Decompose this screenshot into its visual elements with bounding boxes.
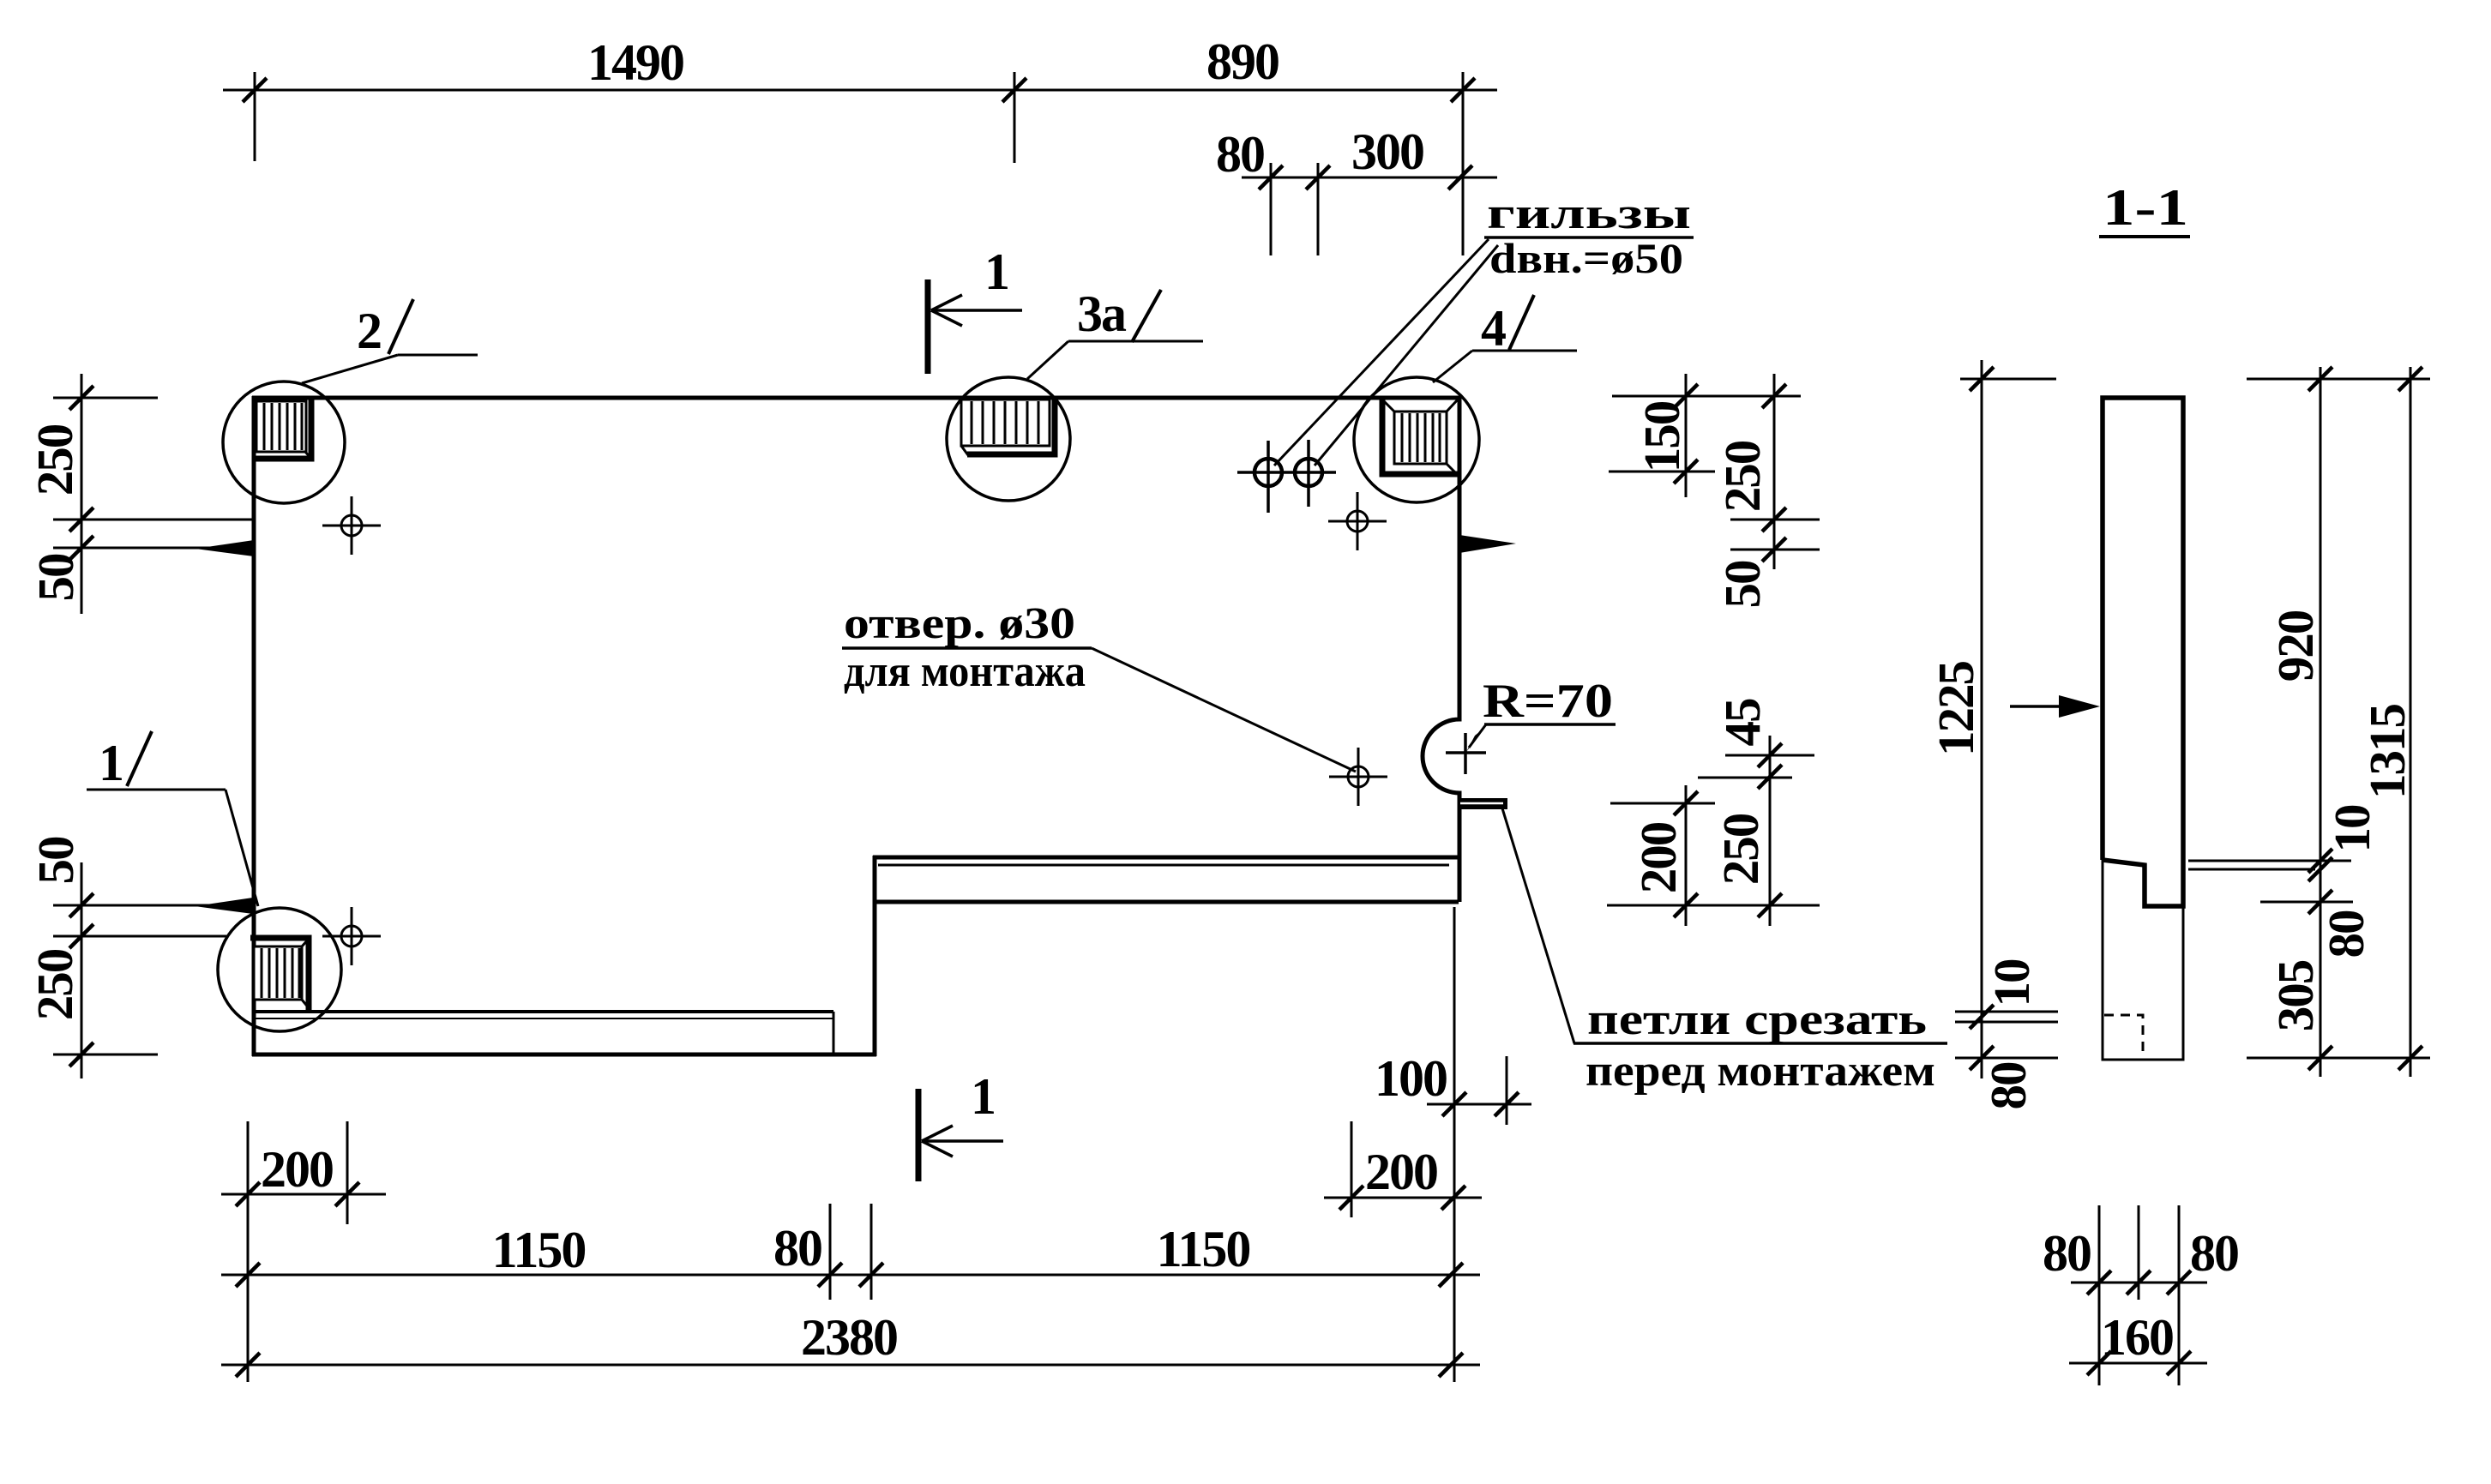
panel right lower rebate edge thick <box>873 856 1459 860</box>
anchor plate 4 chamfer right <box>1447 464 1458 475</box>
section bottom dim line 160 <box>2069 1362 2207 1365</box>
leader detail 4 <box>1433 295 1577 382</box>
anchor plate 1 chamfer bottom <box>302 1000 310 1009</box>
section outline thin lower <box>2103 860 2183 1060</box>
right ext bars upper <box>1612 395 1801 398</box>
svg-text:2380: 2380 <box>801 1309 897 1366</box>
panel right edge with notch R70 <box>1423 396 1459 902</box>
dim line 1490/890 <box>223 89 1497 92</box>
ext rebate end <box>829 1204 832 1300</box>
svg-text:петли срезать: петли срезать <box>1587 995 1927 1044</box>
svg-text:160: 160 <box>2101 1309 2173 1366</box>
gilzy underline <box>1484 236 1694 239</box>
svg-text:80: 80 <box>2190 1225 2238 1282</box>
panel bottom-right edge <box>873 900 1459 904</box>
petli leader <box>1502 808 1574 1043</box>
right dim vertical 200 <box>1685 785 1688 926</box>
left ext bars upper <box>53 397 158 400</box>
svg-text:3a: 3a <box>1077 285 1127 342</box>
dim line 2380 <box>221 1364 1480 1367</box>
svg-text:R=70: R=70 <box>1483 675 1613 728</box>
panel top edge <box>252 396 1461 400</box>
anchor plate 2 hatched square <box>256 401 306 452</box>
mounting hole bottom-left <box>322 907 381 965</box>
section mark 1 bottom bar <box>916 1089 922 1181</box>
svg-text:1: 1 <box>99 735 123 791</box>
svg-text:80: 80 <box>2043 1225 2091 1282</box>
mounting hole top-left <box>322 496 381 555</box>
panel bottom-left edge <box>252 1053 876 1057</box>
detail circle 4 <box>1354 377 1479 502</box>
section bottom ext lines <box>2098 1205 2101 1385</box>
section mark 1 bottom arrow <box>922 1126 1003 1157</box>
anchor plate 3a bevel <box>967 399 1055 454</box>
svg-text:200: 200 <box>261 1141 333 1198</box>
svg-text:1150: 1150 <box>492 1222 586 1278</box>
anchor plate 1 bevel <box>250 938 309 1012</box>
gilzy leader 1 <box>1274 239 1489 466</box>
svg-text:200: 200 <box>1630 822 1687 893</box>
svg-text:150: 150 <box>1634 401 1690 472</box>
otver leader <box>1092 648 1356 772</box>
svg-text:10: 10 <box>1983 959 2040 1007</box>
weld dagger left lower <box>195 898 253 914</box>
svg-text:для монтажа: для монтажа <box>844 647 1086 696</box>
panel left edge <box>252 396 256 1056</box>
svg-text:отвер. ø30: отвер. ø30 <box>844 599 1075 648</box>
weld dagger right upper <box>1459 535 1516 553</box>
section title underline <box>2099 235 2190 238</box>
svg-text:50: 50 <box>27 837 84 885</box>
dim line 200 right <box>1324 1197 1482 1199</box>
svg-text:10: 10 <box>2324 805 2380 853</box>
svg-text:перед монтажем: перед монтажем <box>1585 1047 1935 1096</box>
svg-text:50: 50 <box>27 554 84 602</box>
R70 underline <box>1484 723 1616 726</box>
svg-text:dвн.=ø50: dвн.=ø50 <box>1489 234 1683 282</box>
ext 200 left a <box>247 1121 250 1382</box>
svg-text:4: 4 <box>1481 300 1506 357</box>
svg-text:1: 1 <box>971 1068 995 1125</box>
lifting loop bar right <box>1458 798 1507 809</box>
dim line 200 left <box>221 1193 386 1196</box>
ext hole right <box>1351 1121 1353 1217</box>
anchor plate 2 chamfer <box>305 452 312 460</box>
right dim vertical 250/50 <box>1773 374 1776 569</box>
gilzy leader 2 <box>1315 245 1498 466</box>
svg-text:920: 920 <box>2267 610 2324 682</box>
sleeve hole right axis <box>1307 440 1310 507</box>
section right dim vertical 920/305 <box>2320 367 2322 1077</box>
leader detail 2 <box>302 299 478 383</box>
svg-text:80: 80 <box>773 1220 821 1277</box>
petli underline <box>1573 1042 1947 1045</box>
mounting hole top-right <box>1328 492 1387 550</box>
left dim vertical upper <box>81 374 83 614</box>
svg-text:1150: 1150 <box>1157 1221 1250 1277</box>
svg-text:250: 250 <box>1714 441 1771 512</box>
otver underline <box>842 646 1092 650</box>
sleeve hole left axis <box>1267 441 1270 513</box>
dim line 80/300 <box>1242 177 1497 179</box>
svg-text:2: 2 <box>357 303 381 359</box>
ext line mid <box>1014 72 1016 163</box>
section ext bars left <box>1960 378 2056 381</box>
panel right lower rebate edge thin <box>878 864 1449 867</box>
svg-text:1225: 1225 <box>1928 662 1984 757</box>
svg-text:1315: 1315 <box>2359 705 2416 800</box>
section outline thick <box>2103 398 2183 906</box>
detail circle 2 <box>223 382 345 503</box>
R70 leader arrow <box>1466 724 1486 752</box>
left rebate end vertical <box>833 1012 835 1054</box>
mounting hole mid-right (otver d30) <box>1329 748 1387 806</box>
section left dim vertical 1225 <box>1981 360 1983 1078</box>
leader detail 1 <box>87 731 258 906</box>
detail circle 3a <box>947 377 1070 501</box>
svg-text:1-1: 1-1 <box>2103 179 2188 236</box>
anchor plate 4 bevel <box>1382 399 1459 474</box>
ext line sleeve2 <box>1317 163 1320 255</box>
anchor plate 1 chamfer top <box>302 938 310 946</box>
left rebate line thin <box>254 1018 833 1019</box>
svg-text:1490: 1490 <box>587 34 683 91</box>
sleeves common horizontal axis <box>1237 471 1336 474</box>
anchor plate 1 hatched square <box>254 946 302 1000</box>
ext step <box>870 1204 873 1300</box>
section mark 1 top arrow <box>931 295 1022 326</box>
svg-text:1: 1 <box>984 243 1008 300</box>
section view arrow <box>2010 695 2100 718</box>
sleeve hole left <box>1255 459 1282 486</box>
section ext bars right <box>2247 378 2430 381</box>
section right dim vertical 1315 <box>2410 367 2412 1077</box>
R70 notch center cross <box>1446 733 1486 774</box>
panel step edge <box>873 856 877 1056</box>
left rebate line thick <box>254 1010 833 1013</box>
detail circle 1 <box>218 908 341 1031</box>
anchor plate 3a hatched square <box>961 400 1050 446</box>
weld dagger left upper <box>196 540 254 556</box>
left dim vertical lower <box>81 862 83 1078</box>
ext line right <box>1462 72 1465 255</box>
ext loop end <box>1506 1056 1508 1125</box>
left ext bars lower <box>53 904 226 907</box>
svg-text:300: 300 <box>1351 123 1423 180</box>
svg-text:100: 100 <box>1375 1050 1447 1107</box>
svg-text:45: 45 <box>1714 699 1771 747</box>
ext right edge bottom <box>1453 907 1456 1382</box>
svg-text:80: 80 <box>2318 910 2374 958</box>
ext 200 left b <box>346 1121 349 1224</box>
section dashed rebate <box>2104 1015 2143 1058</box>
anchor plate 4 chamfer top <box>1381 399 1394 412</box>
svg-text:80: 80 <box>1980 1062 2037 1110</box>
svg-text:80: 80 <box>1216 126 1264 183</box>
right ext bars lower <box>1725 754 1814 757</box>
section bottom dim line 80/80 <box>2071 1282 2207 1284</box>
right dim vertical 45/250 <box>1769 736 1772 926</box>
svg-text:50: 50 <box>1714 561 1771 609</box>
anchor plate 2 bevel <box>256 400 311 459</box>
leader detail 3a <box>1027 290 1203 379</box>
right dim vertical 150 <box>1685 374 1688 497</box>
anchor plate 3a chamfer <box>961 446 968 455</box>
dim line 100 <box>1427 1103 1531 1106</box>
svg-text:гильзы: гильзы <box>1487 189 1691 238</box>
ext line sleeve1 <box>1270 163 1273 255</box>
sleeve hole right <box>1295 459 1322 486</box>
ext line left <box>254 72 256 161</box>
svg-text:200: 200 <box>1365 1144 1437 1200</box>
svg-text:890: 890 <box>1206 33 1279 90</box>
section mark 1 top bar <box>925 279 931 374</box>
svg-text:250: 250 <box>27 424 83 496</box>
svg-text:250: 250 <box>27 949 83 1020</box>
dim line 1150/80/1150 <box>221 1274 1480 1277</box>
svg-text:305: 305 <box>2267 960 2324 1031</box>
anchor plate 4 hatched square <box>1394 412 1447 464</box>
anchor plate 4 chamfer corner <box>1447 399 1459 412</box>
svg-text:250: 250 <box>1712 814 1769 885</box>
